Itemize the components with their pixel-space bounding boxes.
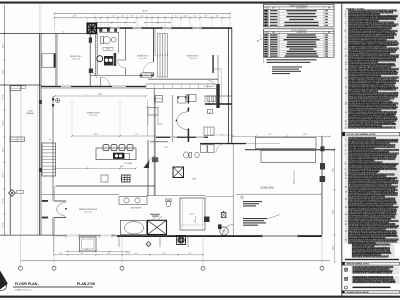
svg-text:10'-0": 10'-0": [332, 168, 334, 172]
svg-text:DOOR SCHEDULE: DOOR SCHEDULE: [291, 30, 307, 32]
laundry washer dryer boxes: [201, 145, 208, 153]
svg-text:ENTRY: ENTRY: [158, 124, 163, 126]
master left wall: [52, 96, 54, 201]
notes header square footage legend: [342, 291, 400, 294]
notes header floor plan general notes: [342, 132, 400, 136]
legend circle item 3: [345, 286, 348, 289]
fan symbol dark: [177, 236, 186, 245]
schedule note block: [272, 66, 302, 67]
svg-text:4'-2: 4'-2: [227, 59, 229, 61]
notes text block 1: [345, 10, 400, 129]
notes panel divider line: [341, 4, 343, 296]
hall closet columns: [157, 34, 159, 78]
mid wall thin lower: [41, 87, 150, 89]
master top wall: [56, 185, 156, 187]
title underline: [13, 286, 93, 288]
svg-text:5'-0: 5'-0: [62, 31, 64, 33]
svg-text:MASTER BEDROOM: MASTER BEDROOM: [79, 208, 98, 211]
bedroom3 bottom wall: [205, 103, 232, 105]
svg-text:SIZE: SIZE: [272, 32, 275, 34]
svg-text:BEDROOM 4: BEDROOM 4: [70, 56, 81, 58]
svg-text:7'-0": 7'-0": [135, 134, 139, 136]
window tick marks top wall: [109, 26, 111, 30]
window tick marks bottom wall: [65, 234, 67, 238]
bottom wall master window band: [55, 235, 117, 237]
patio note block 1: [243, 201, 262, 202]
right dim ticks and labels: [334, 149, 336, 151]
legend checkbox item 2: [345, 277, 348, 280]
legend checkbox item 1: [345, 268, 348, 271]
wic dim marks: [195, 216, 197, 223]
svg-text:12'-0": 12'-0": [184, 16, 188, 18]
master wc toilet: [166, 200, 171, 206]
dim extension lines top: [54, 14, 56, 27]
svg-text:PLAN 2709: PLAN 2709: [77, 282, 95, 286]
water heater: [220, 227, 228, 235]
master french doors: [42, 200, 48, 202]
hall cabinet grid: [207, 96, 216, 101]
svg-text:DN: DN: [49, 139, 51, 141]
svg-text:BEDROOM 3: BEDROOM 3: [137, 56, 148, 58]
laundry cabinet rect: [204, 127, 214, 136]
diamond marker bath: [146, 242, 151, 247]
hall door arc: [149, 156, 155, 162]
great room keynote circle: [56, 98, 60, 102]
top exterior wall: [97, 27, 233, 29]
svg-text:11'-4 x 11'-0: 11'-4 x 11'-0: [139, 58, 147, 60]
bedroom4 left wall: [55, 34, 57, 86]
pantry shelf grid: [122, 175, 131, 182]
bath wall x125: [125, 27, 127, 60]
svg-text:DESCRIPTION: DESCRIPTION: [296, 32, 306, 34]
bottom wall bath segment: [117, 235, 220, 237]
svg-text:4'-6": 4'-6": [205, 16, 208, 18]
svg-text:5'-6": 5'-6": [86, 249, 89, 251]
laundry wall y137: [156, 137, 208, 138]
dim line left column: [4, 5, 6, 235]
bedroom4 window unit: [42, 54, 55, 68]
master upper wall2: [41, 194, 119, 196]
wic dark box: [204, 217, 210, 223]
hall shower xbox: [173, 167, 184, 178]
schedule note line B: [267, 62, 311, 63]
svg-text:4: 4: [260, 36, 261, 38]
kitchen counter band: [146, 83, 216, 85]
svg-text:GREAT ROOM: GREAT ROOM: [87, 112, 100, 115]
great room dim line: [72, 135, 155, 137]
svg-text:FLOOR PLAN -: FLOOR PLAN -: [15, 282, 39, 286]
svg-text:LINEN: LINEN: [192, 179, 196, 181]
stairs in garage: [42, 143, 56, 176]
svg-text:PLAN SHEET REBAR FIELD SHEET W: PLAN SHEET REBAR FIELD SHEET WALL NAIL T…: [353, 272, 393, 275]
ac unit: [208, 110, 213, 114]
svg-text:12'-6": 12'-6": [2, 172, 4, 177]
svg-text:SIZE: SIZE: [272, 8, 275, 10]
svg-text:FLOOR PLAN GENERAL NOTES: FLOOR PLAN GENERAL NOTES: [347, 133, 377, 136]
dim line top third row: [97, 22, 135, 24]
hall wall y75: [90, 75, 150, 77]
kitchen right wall dark: [216, 84, 219, 108]
bath toilet: [103, 37, 110, 44]
master bath leader notes: [153, 216, 157, 220]
notes text block 2: [345, 137, 400, 243]
svg-text:NOOK: NOOK: [144, 75, 148, 77]
bottom wall garage front: [0, 234, 55, 236]
bedroom3 closet shelves: [204, 95, 232, 97]
house right walls: [228, 27, 230, 143]
patio note block 2: [243, 218, 267, 219]
garage right wall: [39, 34, 41, 236]
mid wall y86: [41, 86, 146, 88]
svg-text:GARAGE: GARAGE: [26, 112, 34, 115]
svg-text:10'-0": 10'-0": [332, 246, 334, 250]
schedule note line A: [267, 59, 317, 60]
svg-text:24'-8": 24'-8": [98, 94, 103, 96]
svg-text:5'-0": 5'-0": [141, 16, 144, 18]
svg-text:12'-6": 12'-6": [2, 69, 4, 74]
patio door arc: [223, 225, 234, 236]
bath door arc: [118, 60, 126, 68]
kitchen top wall: [148, 79, 218, 81]
svg-text:17'-4 x 21'-8: 17'-4 x 21'-8: [89, 115, 97, 117]
laundry dim extension: [204, 134, 233, 136]
svg-text:WINDOW GENERAL NOTES: WINDOW GENERAL NOTES: [347, 263, 370, 266]
table door schedule: [264, 29, 335, 58]
svg-text:10'-0": 10'-0": [332, 210, 334, 214]
bottom dim extra ticks: [67, 254, 69, 256]
table window schedule: [264, 4, 335, 27]
garage window box middle: [10, 137, 24, 142]
svg-text:9'-2": 9'-2": [269, 134, 272, 136]
patio slab edge line: [236, 193, 321, 195]
north arrow marker: [0, 271, 8, 290]
laundry south wall: [200, 143, 246, 144]
svg-text:12'-6": 12'-6": [2, 43, 4, 48]
notes header window general notes: [342, 262, 400, 265]
pantry cabinet box: [101, 175, 108, 182]
notes single line A: [345, 259, 399, 260]
grid bubbles: [20, 236, 22, 267]
svg-text:DESCRIPTION: DESCRIPTION: [296, 8, 306, 10]
front porch wall: [0, 33, 90, 35]
patio right dim line: [334, 148, 336, 262]
garage inner line: [20, 91, 22, 235]
svg-text:OWNER MIN GLASS TEMPERED WALL: OWNER MIN GLASS TEMPERED WALL SHEET REBA…: [352, 255, 389, 258]
svg-text:KITCHEN: KITCHEN: [124, 163, 133, 165]
svg-text:W.I.C.: W.I.C.: [190, 214, 195, 216]
patio right wall: [321, 137, 323, 235]
bath north wall: [99, 31, 119, 33]
svg-text:12'-0": 12'-0": [73, 16, 77, 18]
kitchen island counter: [96, 148, 136, 160]
svg-text:13'-2": 13'-2": [94, 134, 98, 136]
svg-text:12'-6": 12'-6": [2, 120, 4, 125]
wic walls: [180, 198, 205, 230]
garage left wall: [9, 86, 11, 235]
patio upper beam rect: [256, 138, 317, 149]
bath label box: [103, 47, 113, 50]
master bath counter: [119, 197, 147, 205]
bottom grid line: [21, 260, 331, 262]
svg-text:12'-6": 12'-6": [2, 94, 4, 99]
keynote window box: [221, 213, 226, 218]
bath lower fixtures: [104, 56, 113, 66]
entry french doors: [177, 112, 189, 131]
svg-text:STRAP DETAIL VERIFY PLAN ANCHO: STRAP DETAIL VERIFY PLAN ANCHOR DOOR GRO…: [353, 281, 396, 284]
garage wall jamb marks: [39, 100, 42, 104]
svg-text:6'-2": 6'-2": [175, 16, 178, 18]
kitchen island sink dark: [113, 153, 124, 159]
patio dim line: [233, 135, 330, 137]
attic fan hatched box: [87, 23, 96, 33]
svg-text:11'-8": 11'-8": [303, 134, 307, 136]
svg-text:INSTALL PROVIDE CONTRACTOR RAF: INSTALL PROVIDE CONTRACTOR RAFTER FIELD …: [348, 127, 396, 130]
master top dim line: [55, 167, 136, 169]
svg-text:COVERED PATIO: COVERED PATIO: [260, 186, 274, 189]
bedroom4 right wall: [89, 34, 91, 86]
svg-text:24'-8": 24'-8": [120, 166, 124, 168]
sheet bottom border band: [0, 296, 400, 298]
dim line top segments: [55, 17, 231, 19]
bedroom2 right wall: [153, 27, 155, 62]
notes centered block: [351, 244, 395, 258]
bath east wall: [118, 32, 120, 53]
island bar stools: [103, 145, 109, 151]
entry walls: [172, 95, 174, 142]
svg-text:11'-0 x 10'-4: 11'-0 x 10'-4: [72, 59, 80, 61]
svg-text:3'-8": 3'-8": [131, 16, 134, 18]
svg-text:38'-8": 38'-8": [142, 11, 147, 13]
section cut triangle: [144, 161, 150, 169]
bedroom4 door arc: [90, 72, 96, 78]
bedroom4 wall jambs: [89, 37, 92, 42]
garage corner box: [10, 86, 21, 91]
hall walls x154: [153, 88, 155, 196]
svg-text:12'-6": 12'-6": [2, 222, 4, 227]
svg-text:4'-6": 4'-6": [121, 16, 124, 18]
svg-text:37'-0": 37'-0": [126, 253, 130, 255]
svg-text:5'-4": 5'-4": [194, 16, 197, 18]
svg-text:WINDOW SCHEDULE: WINDOW SCHEDULE: [290, 5, 309, 7]
master shower: [148, 220, 167, 234]
bath hatched wall: [94, 32, 96, 76]
svg-text:SCALE: 1/4"=1'-0": SCALE: 1/4"=1'-0": [15, 289, 32, 292]
svg-text:5'-4": 5'-4": [112, 16, 115, 18]
patio leader vertical: [293, 170, 295, 183]
svg-text:A3: A3: [257, 40, 259, 43]
patio lower beam rect: [261, 151, 316, 163]
master tub: [121, 221, 147, 235]
patio right wall fixtures: [320, 146, 324, 151]
kitchen appliance boxes: [186, 95, 196, 102]
powder sink: [195, 152, 199, 157]
below wall stubs: [118, 236, 120, 247]
svg-text:BEDROOM 2: BEDROOM 2: [187, 56, 198, 58]
entry closet box: [178, 97, 187, 103]
svg-text:6'-0: 6'-0: [194, 220, 196, 223]
svg-text:12'-6": 12'-6": [2, 147, 4, 152]
svg-text:12'-6": 12'-6": [2, 198, 4, 203]
bedroom3 closet wall: [212, 55, 213, 73]
garage top wall: [0, 84, 41, 86]
svg-text:PWD: PWD: [164, 147, 167, 149]
garage diamond marker: [9, 190, 16, 197]
master dim lines: [65, 250, 130, 252]
svg-text:3'-8": 3'-8": [216, 16, 219, 18]
powder toilet: [184, 152, 189, 158]
patio note marker circle: [241, 196, 244, 199]
bottom wall patio segment: [220, 235, 322, 237]
svg-text:14'-6 x 16'-0: 14'-6 x 16'-0: [84, 212, 92, 214]
svg-text:11'-0 x 11'-6: 11'-0 x 11'-6: [189, 58, 197, 60]
kitchen west wall: [147, 140, 149, 196]
sheet top border band: [0, 2, 400, 4]
svg-text:POST: POST: [84, 94, 88, 96]
nook dim line: [55, 95, 146, 97]
patio header line: [245, 149, 335, 151]
hall wall jamb marks: [140, 75, 143, 77]
dim line top overall: [55, 12, 231, 14]
great room dim extension: [71, 100, 73, 136]
front door arc: [101, 77, 111, 87]
bay window seat: [80, 237, 97, 251]
